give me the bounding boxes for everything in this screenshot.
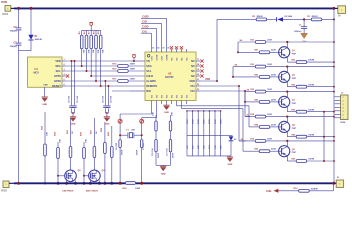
- erc marker crystal right: [140, 119, 144, 123]
- no-connect X on U1 GP50: [66, 74, 69, 77]
- wire Q4 collector: [286, 117, 288, 123]
- wire trunk Q4 base: [248, 106, 250, 127]
- wire diode branch: [30, 8, 32, 34]
- svg-text:R30: R30: [123, 188, 128, 190]
- wire base Q2: [232, 67, 234, 77]
- resistor R45 base: [259, 150, 270, 153]
- resistor R27 vertical: [170, 115, 172, 121]
- svg-text:CHG: CHG: [266, 190, 271, 193]
- svg-text:0M2P: 0M2P: [136, 149, 138, 155]
- resistor R1: [311, 18, 322, 21]
- resistor R64: [296, 135, 307, 138]
- svg-text:100R: 100R: [267, 89, 272, 91]
- wire top bus B+: [14, 7, 334, 9]
- svg-text:R39: R39: [108, 131, 110, 136]
- svg-text:Q2: Q2: [292, 75, 296, 77]
- svg-text:XO: XO: [166, 95, 168, 98]
- svg-text:2R0/M: 2R0/M: [312, 16, 318, 18]
- svg-text:VD: VD: [146, 59, 150, 63]
- svg-text:ENG VMOS: ENG VMOS: [86, 190, 98, 192]
- svg-text:XO: XO: [176, 95, 178, 98]
- svg-text:18: 18: [197, 64, 199, 66]
- diode D1: [28, 35, 33, 40]
- wire RIO row: [112, 90, 130, 92]
- transistor Q5: [279, 146, 290, 157]
- resistor R38 vertical: [104, 122, 106, 143]
- svg-text:VDD: VDD: [205, 78, 210, 81]
- resistor R30 shunt: [126, 182, 136, 185]
- wire erow Q3: [287, 111, 296, 113]
- svg-text:RIO: RIO: [146, 89, 151, 93]
- svg-text:ALARM: ALARM: [146, 79, 155, 83]
- svg-text:100R: 100R: [130, 79, 136, 81]
- wire base Q1: [237, 42, 239, 52]
- svg-text:21: 21: [197, 79, 199, 81]
- wire C4 drop: [71, 61, 73, 105]
- capacitor C4: [69, 105, 73, 107]
- wire net CH1: [141, 32, 152, 34]
- resistor R5 pullup: [81, 30, 83, 35]
- svg-text:100R: 100R: [130, 69, 136, 71]
- svg-text:1N4148: 1N4148: [35, 38, 43, 41]
- junction on top bus 2: [30, 7, 33, 10]
- capacitor C3: [16, 42, 22, 44]
- svg-text:GND: GND: [164, 112, 169, 114]
- svg-text:D2 5404: D2 5404: [285, 15, 293, 18]
- wire XTALI: [151, 104, 153, 114]
- wire CTLR row: [91, 75, 145, 77]
- wire VDD row: [66, 60, 131, 62]
- svg-text:SA6752: SA6752: [165, 76, 174, 79]
- svg-text:R42: R42: [254, 73, 259, 76]
- svg-text:0M2P: 0M2P: [122, 149, 124, 155]
- svg-text:R38: R38: [101, 127, 103, 132]
- svg-text:38: 38: [167, 47, 169, 49]
- power V2 symbol: [90, 23, 93, 26]
- capacitor C2: [16, 27, 22, 29]
- resistor R8 pullup: [95, 30, 97, 35]
- svg-text:R35: R35: [67, 129, 69, 134]
- crystal Y1: [129, 133, 132, 138]
- wire U2 right pin y81: [196, 80, 201, 82]
- wire Q5 collector: [286, 141, 288, 147]
- svg-text:10K/M: 10K/M: [308, 60, 314, 62]
- wire Q2 collector: [286, 67, 288, 73]
- svg-text:V15: V15: [190, 84, 195, 88]
- wire SCL row: [66, 70, 118, 72]
- svg-text:XO: XO: [186, 95, 188, 98]
- svg-text:GND: GND: [71, 124, 76, 126]
- svg-text:104(M): 104(M): [10, 45, 17, 48]
- capacitor C5: [72, 105, 76, 107]
- diode ZD1: [229, 136, 234, 140]
- wire Q1 emitter: [286, 57, 288, 62]
- wire erow Q4: [287, 136, 296, 138]
- svg-text:R15: R15: [112, 64, 117, 66]
- resistor R42 base: [259, 76, 270, 79]
- svg-text:XO: XO: [171, 95, 173, 98]
- svg-text:R5: R5: [79, 31, 81, 35]
- svg-text:VDD: VDD: [189, 79, 195, 83]
- svg-text:PCB1: PCB1: [1, 1, 8, 4]
- svg-text:GP50: GP50: [54, 74, 61, 78]
- svg-text:XO: XO: [151, 95, 153, 98]
- svg-text:PNP: PNP: [292, 128, 297, 130]
- wire erow Q5: [287, 160, 296, 162]
- wire C8 drop: [104, 81, 106, 105]
- svg-text:NC: NC: [171, 57, 173, 61]
- wire U2 right pin y71: [196, 70, 201, 72]
- resistor R15: [118, 65, 129, 68]
- svg-text:R64: R64: [292, 133, 297, 136]
- wire Q5 emitter: [286, 156, 288, 161]
- svg-text:Q5: Q5: [292, 149, 296, 151]
- svg-text:10K/M: 10K/M: [308, 109, 314, 111]
- resistor R35 drain1: [70, 118, 72, 147]
- ground under C4 C5: [72, 113, 74, 117]
- op-amp U2 SA6752: [145, 52, 196, 101]
- svg-text:C5 104: C5 104: [76, 95, 79, 103]
- wire rail Q2: [233, 66, 255, 68]
- wire U2 right pin y91: [196, 90, 201, 92]
- svg-text:GND: GND: [161, 174, 166, 176]
- power VDD symbol: [133, 55, 136, 58]
- wire bottom bus: [14, 182, 125, 184]
- svg-text:XO: XO: [156, 95, 158, 98]
- wire cap pair rail: [156, 164, 171, 166]
- svg-text:CH1D: CH1D: [142, 26, 149, 29]
- resistor R6 pullup: [86, 30, 88, 35]
- svg-text:R31: R31: [250, 40, 255, 42]
- wire pullup top rail: [82, 29, 101, 31]
- svg-text:10K/M: 10K/M: [308, 159, 314, 161]
- svg-text:C4 104: C4 104: [68, 95, 71, 103]
- resistor R37 drain2: [93, 118, 95, 147]
- resistor R44 base: [259, 126, 270, 129]
- svg-text:RESET: RESET: [52, 84, 61, 88]
- wire Q1 collector: [286, 42, 288, 48]
- svg-text:39: 39: [162, 47, 164, 49]
- svg-text:CH1D: CH1D: [156, 54, 158, 60]
- svg-text:R6: R6: [84, 31, 86, 35]
- svg-text:CSE FMOS: CSE FMOS: [62, 190, 74, 192]
- svg-text:Q3: Q3: [292, 100, 296, 102]
- diode D2: [277, 17, 283, 21]
- svg-text:R8: R8: [94, 31, 96, 35]
- wire U1 gnd stub: [44, 87, 46, 97]
- wire rail Q3: [245, 91, 255, 93]
- svg-text:Y1: Y1: [126, 130, 129, 132]
- ground bank rail2: [229, 156, 231, 157]
- svg-text:C8 104: C8 104: [102, 95, 105, 103]
- svg-text:R2: R2: [252, 16, 256, 18]
- transistor Q4: [279, 121, 290, 132]
- capacitor C17: [170, 136, 172, 140]
- svg-text:U2: U2: [168, 72, 172, 76]
- transistor Q8 mosfet: [65, 170, 77, 182]
- svg-text:100R: 100R: [135, 188, 141, 190]
- ground under C8 C9: [106, 113, 108, 117]
- svg-text:R10: R10: [293, 188, 298, 190]
- svg-text:220R: 220R: [271, 149, 276, 151]
- svg-text:GND: GND: [104, 124, 109, 126]
- transistor Q2: [279, 71, 290, 82]
- ground under U1: [42, 96, 48, 98]
- transistor Q9 mosfet: [89, 170, 101, 182]
- svg-text:10K: 10K: [86, 139, 88, 143]
- svg-text:NC: NC: [181, 57, 183, 61]
- svg-text:R36: R36: [80, 131, 82, 136]
- resistor R26 vertical: [155, 115, 157, 121]
- junction on top bus: [17, 7, 20, 10]
- transistor Q1: [279, 47, 290, 58]
- svg-text:R65: R65: [292, 159, 297, 161]
- wire trunk Q5 rail: [239, 140, 246, 142]
- svg-text:PAD3: PAD3: [1, 189, 8, 192]
- svg-text:1K: 1K: [96, 131, 98, 134]
- svg-text:10K: 10K: [98, 49, 100, 53]
- svg-text:PNP: PNP: [292, 103, 297, 105]
- svg-text:17: 17: [197, 59, 199, 61]
- svg-text:C3LR: C3LR: [146, 74, 153, 78]
- svg-text:10K: 10K: [93, 49, 95, 53]
- resistor R41 base: [259, 51, 270, 54]
- svg-text:D1: D1: [35, 36, 39, 38]
- junction bottom bus left: [17, 182, 20, 185]
- capacitor C6: [119, 140, 121, 148]
- junction on top bus 3: [332, 7, 335, 10]
- capacitor C1: [303, 19, 305, 26]
- wire erow Q1: [287, 61, 296, 63]
- resistor R39 vertical: [111, 126, 113, 147]
- svg-text:NC: NC: [191, 59, 195, 63]
- capacitor C8: [103, 105, 107, 107]
- wire RESET row: [66, 85, 112, 87]
- ground under U2: [166, 104, 168, 105]
- svg-text:C17 104: C17 104: [166, 148, 169, 156]
- wire XTALO: [156, 104, 158, 118]
- svg-text:GP30: GP30: [54, 79, 61, 83]
- svg-text:40: 40: [157, 46, 159, 49]
- wire erow Q2: [287, 86, 296, 88]
- wire bank rail1: [187, 135, 233, 137]
- capacitor C9: [106, 105, 110, 107]
- svg-text:R61: R61: [292, 60, 297, 62]
- resistor R34 rail: [255, 115, 266, 118]
- transistor Q3: [279, 96, 290, 107]
- wire base Q3: [244, 92, 246, 102]
- wire right trunk: [333, 8, 335, 183]
- svg-text:10K: 10K: [153, 112, 155, 116]
- svg-text:CH1: CH1: [142, 31, 147, 34]
- wire Q4 emitter: [286, 132, 288, 137]
- svg-text:CH2D: CH2D: [166, 54, 168, 60]
- svg-text:SDA: SDA: [55, 64, 61, 68]
- wire crystal row: [120, 134, 128, 136]
- svg-text:41: 41: [152, 46, 154, 49]
- resistor R10: [299, 189, 310, 192]
- svg-text:R34: R34: [250, 113, 255, 116]
- wire rail Q1: [238, 41, 255, 43]
- svg-text:SDA: SDA: [146, 64, 152, 68]
- svg-text:R41: R41: [254, 49, 259, 52]
- svg-text:0M2P: 0M2P: [158, 152, 160, 158]
- connector PAD1 (top-left): [5, 6, 11, 12]
- svg-text:R44: R44: [254, 123, 259, 126]
- wire trunk Q4 rail: [245, 116, 250, 118]
- wire U2 right pin y76: [196, 75, 201, 77]
- svg-text:J1: J1: [341, 92, 344, 94]
- svg-text:220R: 220R: [271, 99, 276, 101]
- svg-text:20: 20: [197, 74, 199, 76]
- wire trunk Q5 base: [242, 109, 244, 152]
- svg-text:1K: 1K: [72, 131, 74, 134]
- svg-text:GND: GND: [227, 164, 232, 166]
- svg-text:R1: R1: [307, 16, 311, 18]
- svg-text:NC: NC: [191, 74, 195, 78]
- capacitor C7: [141, 140, 143, 148]
- wire vert bank top feed: [176, 104, 178, 106]
- wire CHG row: [278, 190, 298, 192]
- svg-text:10K: 10K: [103, 49, 105, 53]
- svg-text:10K/M: 10K/M: [308, 84, 314, 86]
- svg-text:GND: GND: [43, 85, 48, 87]
- wire V15 trunk a: [201, 85, 240, 87]
- svg-text:GND: GND: [42, 104, 47, 106]
- svg-text:19: 19: [197, 69, 199, 71]
- resistor R35 rail: [255, 140, 266, 143]
- svg-text:Q1: Q1: [292, 50, 296, 52]
- wire row A: [217, 18, 256, 20]
- resistor R61: [296, 61, 307, 64]
- wire base Q4: [253, 126, 259, 128]
- resistor R65: [296, 160, 307, 163]
- svg-text:220R: 220R: [271, 74, 276, 76]
- svg-text:22: 22: [197, 84, 199, 86]
- wire base Q5: [247, 150, 259, 152]
- svg-text:PNP: PNP: [292, 152, 297, 154]
- svg-text:2200uV: 2200uV: [294, 31, 302, 33]
- wire Q2 emitter: [286, 82, 288, 87]
- erc marker crystal left: [118, 119, 122, 123]
- svg-text:R35: R35: [250, 139, 255, 141]
- svg-text:100R: 100R: [267, 64, 272, 66]
- svg-text:C7 22P: C7 22P: [143, 142, 145, 150]
- svg-text:220R: 220R: [271, 124, 276, 126]
- svg-text:R33: R33: [41, 125, 43, 130]
- wire rail Q5: [239, 140, 255, 142]
- resistor R33 vertical: [44, 112, 46, 144]
- resistor R32 rail: [255, 65, 266, 68]
- svg-text:C16 104: C16 104: [151, 148, 154, 156]
- svg-text:REMOTE: REMOTE: [146, 84, 157, 88]
- svg-text:XO: XO: [181, 95, 183, 98]
- svg-text:104(M): 104(M): [10, 30, 17, 33]
- svg-text:B-: B-: [337, 177, 340, 179]
- wire left rail: [18, 8, 20, 28]
- wire C5 drop: [74, 61, 76, 105]
- svg-text:PNP: PNP: [292, 78, 297, 80]
- wire Q3 collector: [286, 92, 288, 98]
- power ground tan arrow: [301, 33, 308, 38]
- no-connect X U2 top pins: [170, 46, 173, 49]
- svg-text:CH2: CH2: [142, 21, 147, 24]
- svg-text:100R: 100R: [130, 64, 136, 66]
- svg-text:SCL: SCL: [146, 69, 152, 73]
- svg-text:B+: B+: [338, 16, 342, 18]
- svg-text:NC: NC: [186, 57, 188, 61]
- svg-text:XO: XO: [161, 95, 163, 98]
- svg-text:R63: R63: [292, 109, 297, 111]
- svg-text:R32: R32: [250, 64, 255, 66]
- svg-text:C9 104: C9 104: [110, 95, 113, 103]
- op-amp U1 MCU: [28, 57, 63, 87]
- svg-text:R17: R17: [112, 79, 117, 81]
- svg-text:100M: 100M: [340, 122, 345, 124]
- svg-text:C6 22P: C6 22P: [116, 142, 118, 150]
- svg-text:R37: R37: [91, 129, 93, 134]
- no-connect X U2 right pins: [200, 59, 203, 62]
- connector PAD4 (bottom-right): [336, 180, 343, 187]
- svg-text:0M2P: 0M2P: [172, 152, 174, 158]
- wire U2 right pin y61: [196, 60, 201, 62]
- svg-text:100R/M: 100R/M: [311, 188, 318, 190]
- svg-text:NC: NC: [176, 57, 178, 61]
- connector CN2: [341, 95, 349, 120]
- svg-text:10K: 10K: [60, 139, 62, 143]
- svg-text:2R0/M: 2R0/M: [257, 16, 263, 18]
- svg-text:R9: R9: [98, 31, 100, 35]
- wire net CH2D: [141, 17, 167, 19]
- wire vert resistor bank: [186, 111, 188, 156]
- svg-text:23: 23: [197, 89, 199, 91]
- wire Q9 source: [89, 181, 91, 184]
- wire net CH2: [141, 22, 162, 24]
- resistor R43 base: [259, 101, 270, 104]
- wire VDD net: [201, 80, 218, 82]
- power port CHG: [274, 189, 279, 193]
- svg-text:R45: R45: [254, 148, 259, 151]
- wire mid trunk right: [323, 112, 325, 161]
- ground cap pair: [162, 165, 164, 166]
- svg-text:R33: R33: [250, 89, 255, 91]
- svg-text:100R: 100R: [267, 114, 272, 116]
- resistor R62: [296, 85, 307, 88]
- svg-text:100R: 100R: [267, 139, 272, 141]
- wire C9 drop: [107, 86, 109, 105]
- svg-text:U1: U1: [35, 67, 39, 71]
- wire U2 right pin y86: [196, 85, 201, 87]
- wire U2 right pin y66: [196, 65, 201, 67]
- resistor R17: [118, 80, 129, 83]
- junction bottom bus right: [332, 182, 335, 185]
- resistor R36 gate2: [83, 142, 85, 148]
- resistor R33 rail: [255, 90, 266, 93]
- svg-text:NC: NC: [191, 69, 195, 73]
- wire V15 trunk b: [201, 90, 246, 92]
- resistor R31 rail: [255, 41, 266, 44]
- wire GP30 row: [66, 80, 118, 82]
- wire rail Q4: [245, 116, 255, 118]
- svg-text:10K: 10K: [172, 112, 174, 116]
- connector PAD3 (bottom-left): [3, 181, 9, 188]
- resistor R16: [118, 70, 129, 73]
- svg-text:10K: 10K: [47, 132, 49, 136]
- wire Q3 emitter: [286, 107, 288, 112]
- svg-text:10K/M: 10K/M: [308, 134, 314, 136]
- svg-text:8M: 8M: [132, 130, 135, 132]
- svg-text:100R: 100R: [267, 40, 272, 42]
